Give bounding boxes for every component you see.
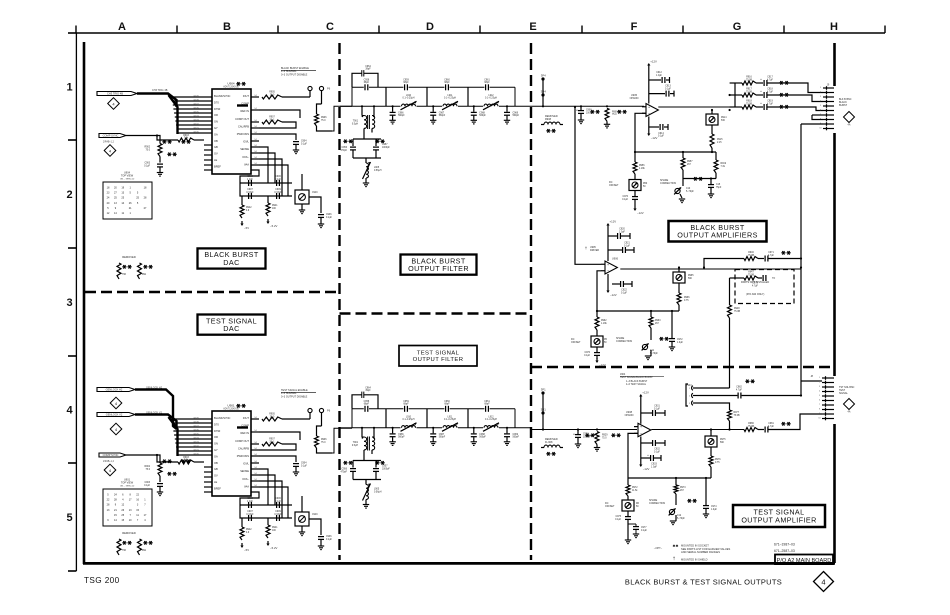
svg-text:1.0µF: 1.0µF: [711, 509, 718, 511]
svg-text:C932: C932: [654, 449, 660, 451]
wire: [729, 421, 731, 430]
capacitor C956: [352, 461, 354, 468]
wire: [267, 518, 269, 525]
pin stub: [251, 449, 259, 451]
svg-text:+: +: [607, 263, 609, 267]
svg-text:0.1µF: 0.1µF: [622, 199, 629, 201]
connector J8 pins upper: [822, 377, 834, 379]
svg-text:1.18k: 1.18k: [639, 168, 645, 170]
wire: [361, 428, 363, 437]
wire: [385, 87, 387, 106]
svg-text:C931: C931: [654, 406, 660, 408]
svg-text:0.1–0.25µH: 0.1–0.25µH: [485, 419, 497, 421]
resistor R942: [240, 205, 244, 218]
svg-text:GY79: GY79: [193, 95, 199, 97]
svg-text:R918: R918: [746, 101, 752, 103]
svg-text:3P1: 3P1: [541, 387, 546, 391]
resistor R909: [606, 105, 608, 107]
wire data bit 3: [175, 120, 212, 122]
svg-text:R–908: R–908: [545, 441, 553, 444]
svg-text:0.1µF: 0.1µF: [144, 165, 151, 167]
ground: [299, 209, 305, 211]
svg-text:GENLOCK V2: GENLOCK V2: [106, 413, 123, 417]
pin stub: [251, 431, 259, 433]
resistor R902: [158, 463, 162, 476]
svg-text:R903: R903: [183, 135, 189, 137]
grid tick left: [68, 32, 76, 34]
capacitor C970a: [632, 196, 638, 198]
grid tick top: [378, 26, 380, 34]
grid tick left: [68, 462, 76, 464]
grid tick left: [68, 570, 76, 572]
DAC IC U904: [212, 89, 251, 174]
svg-text:R941: R941: [272, 205, 278, 207]
asterisks: [781, 423, 785, 425]
svg-text:GY77: GY77: [193, 425, 199, 427]
svg-text:2/R4B–1,2: 2/R4B–1,2: [103, 141, 115, 143]
svg-text:GY73: GY73: [193, 441, 199, 443]
svg-text:U901: U901: [227, 403, 235, 407]
wire: [157, 455, 160, 463]
wire: [768, 94, 792, 96]
svg-text:GY79: GY79: [193, 417, 199, 419]
svg-text:GY72: GY72: [193, 123, 199, 125]
svg-text:TSG 200: TSG 200: [84, 576, 120, 585]
svg-text:COMP OUT: COMP OUT: [235, 117, 249, 121]
svg-text:IOVL: IOVL: [243, 462, 249, 466]
svg-text:PWR DNS: PWR DNS: [237, 132, 250, 136]
resistor R917: [742, 93, 756, 97]
pinout table U904 TOP VIEW: [103, 182, 152, 219]
capacitor C964: [352, 73, 362, 87]
wire: [758, 429, 764, 431]
wire: [259, 165, 288, 196]
wire data bit 0: [177, 454, 212, 456]
svg-text:0.1µF: 0.1µF: [615, 519, 622, 521]
resistor R947: [744, 276, 758, 280]
wire: [729, 278, 731, 305]
wire output: [658, 106, 735, 108]
svg-text:C903: C903: [145, 482, 151, 484]
junction: [711, 109, 713, 111]
wire: [758, 277, 762, 279]
junction: [800, 394, 802, 396]
wire: [301, 496, 303, 512]
dashed box PARTS NOT INSTALLED: [735, 270, 794, 304]
svg-text:C964: C964: [365, 387, 371, 389]
op-amp U906: [605, 261, 617, 274]
resistor R919b: [714, 160, 718, 173]
wire bus: [137, 94, 177, 108]
svg-text:0.33µF: 0.33µF: [246, 514, 254, 516]
capacitor C936: [318, 536, 324, 538]
wire bias rail: [597, 310, 679, 312]
svg-text:0.75: 0.75: [715, 462, 720, 464]
wire: [634, 200, 636, 206]
wire: [683, 178, 716, 180]
svg-text:3H4: 3H4: [541, 89, 547, 93]
svg-text:C919: C919: [767, 101, 773, 103]
ground: [645, 355, 651, 357]
svg-text:4: 4: [66, 405, 73, 417]
svg-text:C907: C907: [247, 511, 253, 513]
resistor R946: [744, 257, 758, 261]
asterisks: [590, 111, 594, 113]
wire: [259, 432, 300, 440]
junction: [473, 105, 475, 107]
capacitor C982: [737, 393, 739, 399]
svg-text:75.0: 75.0: [612, 114, 617, 116]
junction: [542, 428, 544, 430]
svg-text:R977: R977: [734, 412, 740, 414]
svg-text:CAL/RFB: CAL/RFB: [238, 124, 249, 128]
svg-text:68pF: 68pF: [484, 82, 490, 84]
capacitor C908: [580, 105, 582, 107]
capacitor C906: [276, 502, 278, 508]
svg-text:0.1µF: 0.1µF: [326, 539, 333, 541]
capacitor C964: [352, 395, 362, 409]
connector J8 pins lower: [822, 404, 834, 406]
page number diamond: [814, 572, 834, 592]
power -12V: [607, 288, 609, 292]
svg-text:C961: C961: [484, 401, 490, 403]
wire: [351, 409, 353, 428]
capacitor C909: [276, 515, 278, 521]
svg-text:560pF: 560pF: [439, 437, 446, 439]
svg-text:0.33µF: 0.33µF: [246, 192, 254, 194]
svg-text:F: F: [631, 21, 638, 33]
svg-text:C967: C967: [439, 112, 445, 114]
jumper P6: [308, 408, 312, 412]
junction: [473, 427, 475, 429]
wire: [627, 524, 629, 540]
wire: [320, 540, 322, 546]
svg-text:C959: C959: [403, 401, 409, 403]
capacitor C922: [612, 283, 620, 285]
svg-text:28.0: 28.0: [270, 94, 275, 96]
svg-text:GY70: GY70: [193, 453, 199, 455]
svg-text:C10: C10: [686, 188, 691, 190]
wire data bit 8: [172, 100, 212, 102]
svg-text:L910: L910: [406, 95, 412, 97]
resistor R905: [262, 95, 282, 99]
svg-text:C912: C912: [656, 72, 662, 74]
svg-text:GN: GN: [214, 442, 218, 446]
node diamond: [104, 145, 116, 157]
wire data bit 9: [172, 418, 213, 420]
grid tick top: [277, 26, 279, 34]
off-page connector CH TRIG: [97, 92, 137, 96]
svg-text:C964: C964: [365, 66, 371, 68]
svg-text:GA: GA: [214, 454, 218, 458]
svg-text:R917: R917: [746, 89, 752, 91]
wire: [365, 158, 367, 163]
svg-text:TO: TO: [772, 278, 775, 280]
wire: [317, 426, 322, 436]
svg-text:C936: C936: [326, 536, 332, 538]
wire: [742, 395, 801, 397]
svg-text:560pF: 560pF: [398, 437, 405, 439]
wire: [711, 110, 713, 114]
pin stub: [251, 140, 259, 142]
wire main line E-F: [531, 105, 644, 107]
svg-text:C972: C972: [677, 339, 683, 341]
jumper P6: [308, 86, 312, 90]
removed resistor: [138, 539, 142, 555]
junction: [710, 428, 712, 430]
wire long vertical: [800, 124, 802, 258]
wire: [317, 104, 322, 114]
grid tick top: [75, 26, 77, 34]
wire: [812, 115, 823, 120]
svg-text:1.18k: 1.18k: [601, 323, 607, 325]
ground: [363, 504, 369, 506]
svg-text:GENLOCK H2: GENLOCK H2: [106, 388, 123, 392]
svg-text:75.0B: 75.0B: [746, 91, 752, 93]
junction: [650, 310, 652, 312]
svg-text:R919: R919: [721, 163, 727, 165]
svg-text:0.1–0.25µH: 0.1–0.25µH: [444, 419, 456, 421]
wire: [259, 475, 275, 505]
node diamond 4A: [844, 112, 855, 123]
wire feedback rail: [635, 151, 716, 153]
wire: [467, 87, 469, 106]
wire data bit 2: [176, 446, 212, 448]
wire: [240, 505, 292, 518]
wire: [791, 107, 823, 111]
wire: [317, 448, 333, 453]
svg-text:C968: C968: [479, 112, 485, 114]
capacitor C912: [649, 79, 661, 81]
resistor R963: [649, 317, 653, 328]
svg-text:OUTPUT AMPLIFIERS: OUTPUT AMPLIFIERS: [677, 231, 758, 240]
svg-text:A: A: [118, 21, 126, 33]
pin stub: [251, 121, 259, 123]
svg-text:3H1: 3H1: [541, 407, 547, 411]
svg-text:−: −: [640, 432, 642, 436]
svg-text:C15: C15: [716, 184, 721, 186]
wire: [353, 157, 381, 159]
pin stub: [251, 486, 259, 488]
grid tick top: [682, 26, 684, 34]
wire: [768, 82, 792, 84]
wire: [282, 418, 310, 420]
capacitor C975: [625, 516, 631, 518]
svg-text:470pF: 470pF: [340, 150, 347, 152]
wire main line: [531, 429, 637, 431]
border frame top line: [76, 32, 885, 34]
svg-text:75.0B: 75.0B: [746, 79, 752, 81]
svg-text:C969: C969: [513, 434, 519, 436]
asterisks: [659, 338, 663, 340]
svg-text:4.7µF: 4.7µF: [752, 285, 759, 287]
svg-text:39pF: 39pF: [365, 390, 371, 392]
svg-text:560pF: 560pF: [479, 437, 486, 439]
pin stub: [251, 455, 259, 457]
svg-text:11.5k: 11.5k: [632, 490, 638, 492]
junction: [361, 427, 363, 429]
svg-text:C906: C906: [275, 498, 281, 500]
wire: [363, 450, 365, 461]
svg-text:REMOVED: REMOVED: [122, 255, 136, 259]
resistor R976: [709, 456, 713, 467]
wire output: [651, 429, 744, 431]
svg-text:560pF: 560pF: [479, 115, 486, 117]
wire: [650, 328, 652, 340]
capacitor C906: [276, 180, 278, 186]
svg-text:BURST: BURST: [839, 104, 848, 107]
capacitor C967: [432, 106, 434, 112]
svg-text:D790: D790: [214, 107, 221, 111]
svg-text:OB: OB: [214, 461, 218, 465]
asterisks: [687, 500, 691, 502]
svg-text:560pF: 560pF: [513, 437, 520, 439]
svg-text:C907: C907: [247, 189, 253, 191]
svg-text:20–1: 20–1: [269, 119, 275, 121]
capacitor C966: [392, 106, 394, 112]
svg-text:R947: R947: [748, 272, 754, 274]
pinout table U901 TOP VIEW: [103, 489, 152, 526]
wire: [371, 128, 373, 132]
inductor L912: [483, 424, 499, 429]
wire: [371, 450, 373, 454]
wire: [320, 218, 322, 224]
svg-text:C917: C917: [767, 77, 773, 79]
svg-text:68pF: 68pF: [364, 82, 370, 84]
svg-text:–OPT–: –OPT–: [654, 546, 663, 550]
ground: [157, 491, 163, 493]
node diamond 4A: [844, 399, 855, 410]
svg-text:L905: L905: [374, 489, 380, 491]
junction: [705, 477, 707, 479]
svg-text:T901: T901: [353, 442, 359, 444]
wire: [259, 487, 288, 518]
inductor L912: [483, 102, 499, 107]
svg-text:−12V: −12V: [651, 136, 658, 140]
svg-text:0.5µH: 0.5µH: [352, 445, 359, 447]
svg-text:C906: C906: [275, 176, 281, 178]
pin stub: [251, 127, 259, 129]
wire: [596, 311, 598, 317]
svg-text:2.15: 2.15: [717, 142, 722, 144]
asterisks: [781, 252, 785, 254]
wire: [157, 455, 178, 462]
svg-text:1: 1: [66, 82, 72, 94]
label box TEST SIGNAL OUTPUT AMPLIFIER: [733, 505, 825, 527]
wire: [758, 258, 764, 260]
wire: [756, 82, 763, 84]
svg-text:+12V: +12V: [650, 59, 657, 63]
junction: [800, 257, 802, 259]
svg-text:75.0B: 75.0B: [748, 426, 754, 428]
ground: [633, 533, 639, 535]
svg-text:C961: C961: [484, 79, 490, 81]
resistor R906: [315, 114, 319, 126]
svg-text:GN: GN: [214, 120, 218, 124]
test point: [541, 391, 544, 394]
svg-text:BLANK/SYNC: BLANK/SYNC: [214, 94, 231, 98]
svg-text:28.0: 28.0: [270, 416, 275, 418]
svg-text:75pF: 75pF: [716, 187, 722, 189]
divider dashed horizontal left: [85, 291, 340, 293]
junction: [506, 427, 508, 429]
svg-text:CORRECTION: CORRECTION: [649, 502, 665, 505]
label box TEST SIGNAL DAC: [198, 315, 266, 335]
svg-text:COMP OUT: COMP OUT: [235, 439, 249, 443]
junction: [574, 106, 576, 108]
svg-text:C957: C957: [382, 466, 388, 468]
connector J9 pins: [823, 87, 834, 89]
svg-text:C904: C904: [301, 141, 307, 143]
svg-text:1000pF: 1000pF: [382, 147, 390, 149]
wire: [295, 467, 297, 472]
wire bus diagonal: [169, 95, 178, 134]
pin stub: [251, 133, 259, 135]
svg-text:R907: R907: [269, 117, 275, 119]
wire: [259, 481, 282, 518]
grid tick top: [176, 26, 178, 34]
junction: [542, 105, 544, 107]
resistor R941: [266, 203, 270, 216]
svg-text:671–2587–03: 671–2587–03: [774, 549, 795, 553]
removed resistor: [117, 539, 121, 555]
off-page connector GENLOCK H: [97, 388, 135, 392]
svg-text:R929: R929: [602, 435, 608, 437]
svg-text:4A: 4A: [848, 124, 851, 127]
wire data bit 0: [177, 132, 212, 134]
svg-text:C958: C958: [364, 401, 370, 403]
svg-text:GY74: GY74: [193, 115, 199, 117]
resistor R915: [710, 134, 714, 148]
svg-text:−5V: −5V: [244, 226, 249, 230]
svg-text:LE: LE: [214, 480, 217, 484]
svg-text:4.7µF: 4.7µF: [768, 255, 775, 257]
capacitor C972: [671, 310, 673, 312]
variable resistor R914: [706, 114, 718, 125]
svg-text:L912: L912: [488, 416, 494, 418]
wire: [542, 418, 544, 430]
P/O A2 MAIN BOARD box: [775, 555, 833, 565]
svg-text:C914: C914: [658, 133, 664, 135]
svg-text:OUTPUT FILTER: OUTPUT FILTER: [413, 357, 464, 363]
wire: [353, 460, 381, 462]
wire -12V: [607, 274, 609, 288]
wire: [385, 409, 387, 428]
svg-text:C958: C958: [364, 79, 370, 81]
junction: [728, 428, 730, 430]
svg-text:GY70: GY70: [193, 131, 199, 133]
svg-text:GY72: GY72: [193, 445, 199, 447]
svg-text:C904: C904: [301, 463, 307, 465]
capacitor C917: [763, 80, 765, 86]
svg-text:1.0µF: 1.0µF: [619, 231, 626, 233]
svg-text:+: +: [573, 433, 575, 437]
wire: [259, 153, 275, 183]
svg-text:ADV7120KN30: ADV7120KN30: [223, 86, 239, 89]
wire: [729, 318, 731, 388]
wire: [514, 409, 516, 428]
wire: [801, 380, 822, 382]
wire: [467, 409, 469, 428]
pin stub: [251, 443, 259, 445]
capacitor C958: [364, 84, 369, 91]
svg-text:4: 4: [821, 577, 825, 586]
capacitor C903: [157, 163, 163, 165]
power +12V: [640, 396, 642, 400]
svg-text:0.1µF: 0.1µF: [326, 217, 333, 219]
svg-text:C956: C956: [342, 147, 348, 149]
svg-text:4.7µF: 4.7µF: [768, 426, 775, 428]
